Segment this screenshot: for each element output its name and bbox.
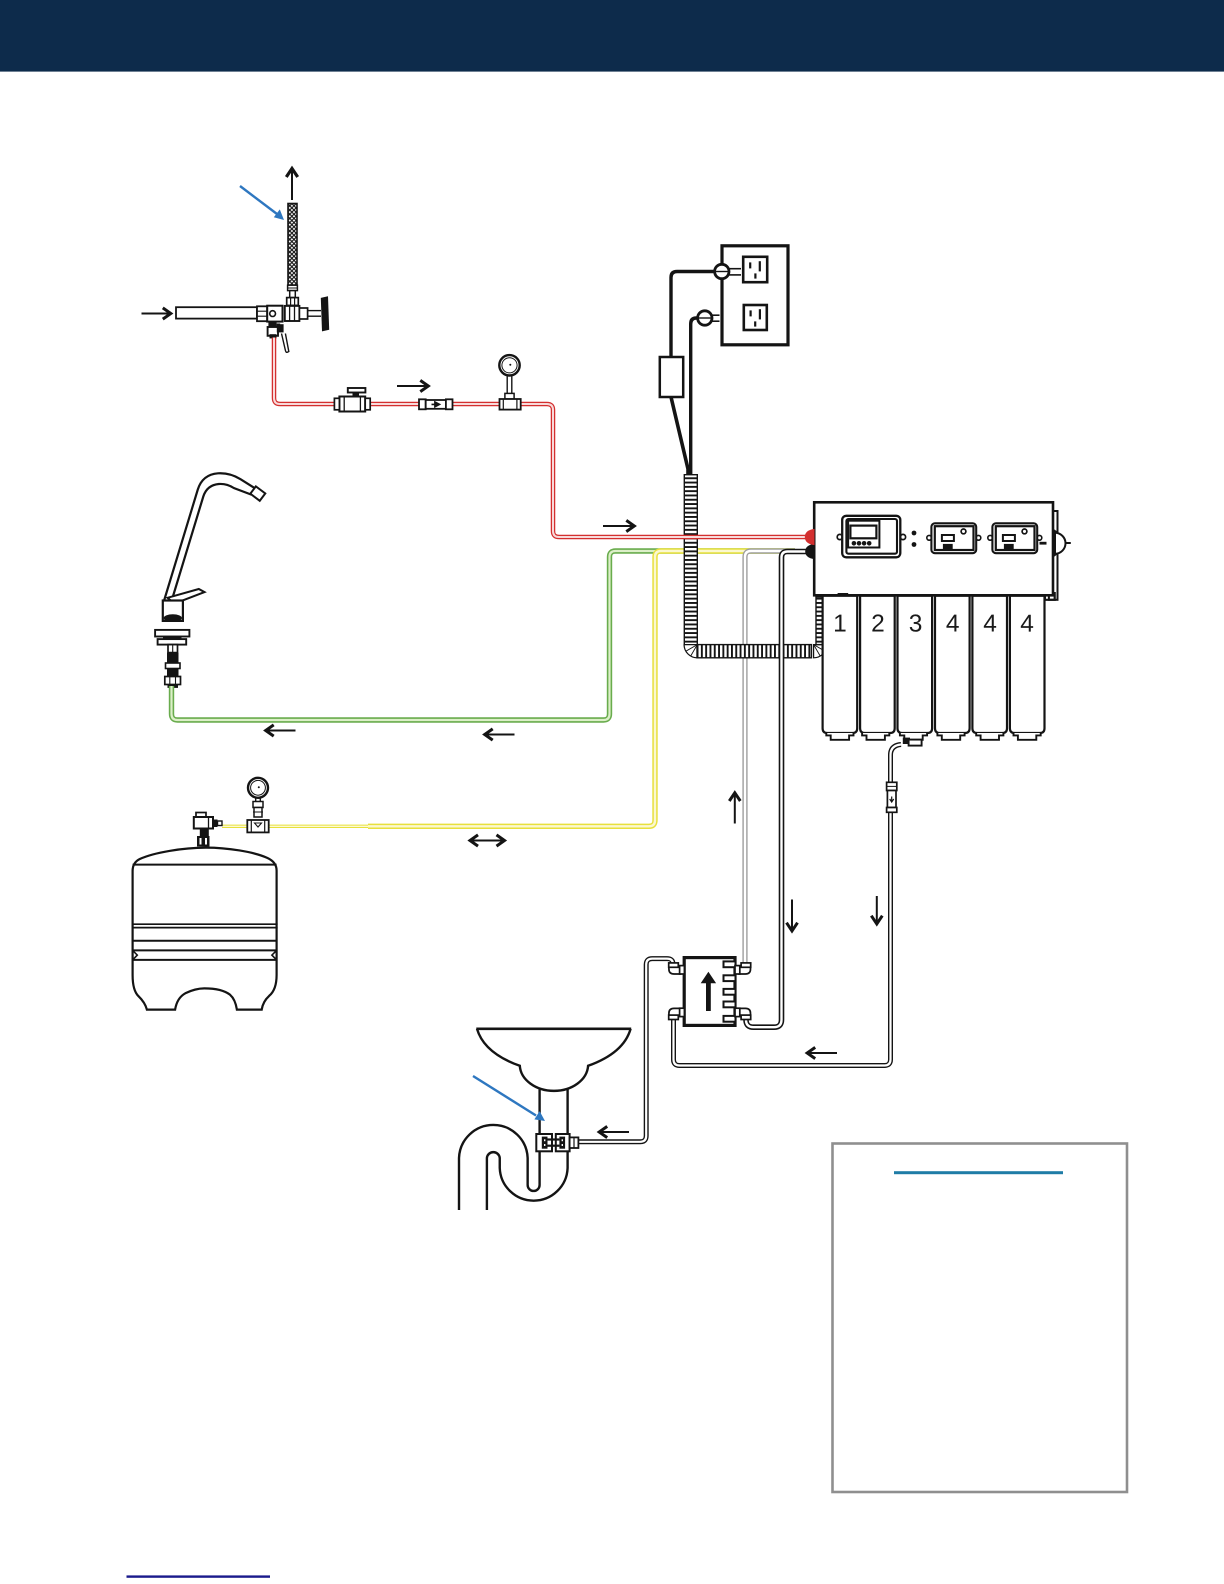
filter 6 [1010, 596, 1045, 733]
self-piercing needle valve below supply valve [268, 322, 289, 352]
supply pipe [176, 307, 257, 318]
faucet handle lever [168, 589, 205, 604]
small tab under head left [838, 593, 849, 596]
drain saddle clamp [536, 1134, 578, 1151]
dash left of knob [1040, 542, 1047, 545]
sleeve vertical run [684, 475, 697, 646]
head bottom-right step [1045, 592, 1055, 600]
pump port top-left [669, 963, 685, 974]
double-headed arrow on yellow line [470, 835, 505, 846]
filter 5 [972, 596, 1007, 733]
blue callout arrow to braided riser [240, 186, 284, 220]
left arrow on pump bottom line [807, 1047, 837, 1058]
inline check valve on red line [419, 399, 453, 409]
blue callout arrow to drain saddle [473, 1076, 545, 1121]
black tube: pump top-left port to drain saddle [579, 959, 674, 1142]
footer navy rule [127, 1575, 271, 1577]
arrow on red line after ball valve [397, 380, 428, 391]
module 3 (pump controller) [992, 523, 1037, 553]
tank shut-off valve [194, 813, 222, 847]
sleeve upper vertical stub to unit [816, 597, 829, 645]
tailpiece and P-trap wall 2 [487, 1090, 568, 1211]
top receptacle [743, 257, 767, 282]
pump port bottom-left [669, 1008, 685, 1019]
svg-text:1: 1 [833, 610, 847, 637]
faucet base flanges [155, 630, 189, 637]
up arrow above riser [286, 169, 297, 201]
faucet aerator tip [250, 486, 265, 500]
black tube: filter 3 drain down to pump bottom-left port [674, 745, 902, 1066]
header navy banner [0, 0, 1224, 72]
duplex outlet plate [722, 246, 788, 345]
left arrow on green line (near faucet) [266, 725, 296, 736]
unit head box [814, 502, 1053, 595]
pressure gauge on feed tee [499, 355, 520, 410]
plug 1 (booster pump cord) [715, 264, 741, 278]
filter 1 [823, 596, 858, 733]
membrane flush knob [1053, 529, 1071, 558]
braided faucet riser hose [287, 204, 299, 306]
up arrow next to gray tube [729, 793, 740, 824]
filter 4 [935, 596, 970, 733]
filter numbers [833, 610, 1034, 637]
valve stem and T-handle [308, 296, 330, 331]
note box [833, 1144, 1128, 1493]
pump up arrow [706, 982, 711, 1011]
control panel [842, 516, 900, 558]
left arrow on green line (mid) [485, 729, 515, 740]
left arrow on drain line to saddle [599, 1126, 629, 1137]
pump port top-right [735, 963, 751, 974]
sleeve right elbow fan [814, 645, 827, 658]
tank tee fitting on yellow line [247, 820, 268, 832]
svg-text:4: 4 [1020, 611, 1034, 638]
cord 1 from plug 1 through transformer [671, 272, 716, 358]
plug 2 (transformer cord) [698, 311, 720, 325]
svg-text:2: 2 [871, 610, 885, 637]
svg-text:4: 4 [946, 611, 960, 638]
filter 3 [898, 596, 933, 733]
tailpiece and P-trap wall 1 [459, 1090, 540, 1211]
down arrow on black tube to pump [787, 900, 798, 931]
filter 2 [860, 596, 895, 733]
gray pump tube: unit area down to permeate pump top-right port [745, 551, 795, 963]
module 2 (pump controller) [931, 523, 976, 553]
red feed tube: needle valve to RO unit inlet [274, 338, 806, 538]
wall bracket behind head [1049, 511, 1058, 600]
filter feet [826, 733, 1040, 740]
bottom receptacle [744, 305, 767, 330]
module 2 ears [927, 535, 932, 540]
ball shut-off valve on red line [334, 388, 370, 412]
sink bowl [477, 1029, 631, 1091]
transformer block [660, 357, 683, 397]
indicator dots [912, 531, 917, 536]
note box teal rule [894, 1171, 1063, 1174]
tank pressure gauge [248, 778, 268, 817]
arrow on red line toward unit inlet [603, 520, 634, 531]
flow restrictor on filter 3 drain [887, 782, 897, 812]
pump body [684, 958, 735, 1026]
pump ribs [724, 961, 736, 1021]
svg-text:4: 4 [983, 611, 997, 638]
filter 3 drain elbow fitting [903, 738, 910, 744]
control panel left ear [837, 534, 842, 539]
yellow tank tube: unit to tank (main run) [368, 551, 795, 826]
faucet body [163, 601, 183, 621]
svg-text:3: 3 [909, 611, 923, 638]
supply valve tee body [257, 306, 308, 322]
module 3 ears [988, 535, 993, 540]
sleeve horizontal run [697, 645, 812, 658]
faucet shank and quick-connect [165, 645, 181, 688]
black port dot on unit [805, 544, 814, 559]
black tube: unit outlet port down to pump bottom-right port [746, 552, 806, 1028]
arrow pointing to supply pipe [142, 308, 171, 319]
tank shell [132, 848, 278, 1010]
pump port bottom-right [735, 1008, 751, 1019]
cord from transformer into sleeve [671, 397, 688, 474]
down arrow on filter 3 drain tube [871, 896, 882, 924]
yellow tank tube: unit to tank (thin segment) [222, 825, 400, 828]
green faucet tube: unit to faucet [172, 551, 796, 720]
control panel right ear [900, 534, 905, 539]
sleeve lower-left elbow fan [684, 645, 697, 658]
cord 2 from plug 2 [691, 318, 699, 474]
faucet spout [164, 473, 255, 600]
red inlet port dot on RO unit [805, 529, 815, 545]
